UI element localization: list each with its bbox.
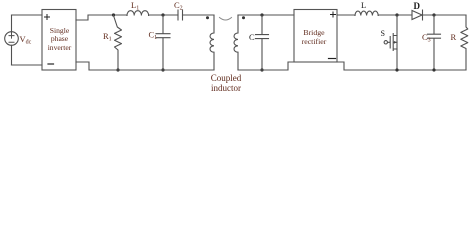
node C bottom bbox=[260, 68, 263, 71]
node switch bottom bbox=[395, 68, 398, 71]
coupled inductor primary bbox=[210, 15, 214, 70]
inductor L1 bbox=[127, 11, 149, 16]
svg-text:C: C bbox=[249, 32, 255, 42]
wire inverter top output with jog bbox=[76, 15, 127, 20]
wire bottom left from source to inverter bbox=[12, 64, 43, 66]
polarity dot left bbox=[206, 16, 209, 19]
voltage source Vdc bbox=[5, 15, 19, 65]
inductor L bbox=[355, 11, 378, 15]
svg-text:Singlephaseinverter: Singlephaseinverter bbox=[48, 26, 72, 52]
resistor R bbox=[461, 15, 468, 70]
resistor R1 bbox=[114, 16, 122, 71]
node C3 top bbox=[432, 13, 435, 16]
label - bridge bbox=[329, 58, 336, 60]
wire inverter bottom output with jog bbox=[76, 62, 214, 70]
wire L to diode bbox=[378, 14, 412, 16]
bridge rectifier block bbox=[294, 10, 337, 63]
node C3 bottom bbox=[432, 68, 435, 71]
node R1 top bbox=[112, 13, 115, 16]
svg-text:C1: C1 bbox=[149, 30, 158, 42]
svg-text:Coupledinductor: Coupledinductor bbox=[211, 73, 242, 93]
node R1 bottom bbox=[116, 68, 119, 71]
node C top bbox=[260, 13, 263, 16]
svg-text:D: D bbox=[414, 1, 421, 11]
svg-text:S: S bbox=[381, 29, 385, 38]
node C1 top bbox=[161, 13, 164, 16]
label + inverter bbox=[45, 15, 50, 20]
node switch top bbox=[395, 13, 398, 16]
diode D bbox=[412, 10, 423, 20]
capacitor C2 bbox=[178, 10, 183, 20]
svg-text:Vdc: Vdc bbox=[20, 34, 32, 46]
wire L1 to C2 bbox=[149, 14, 178, 16]
switch S mosfet bbox=[384, 15, 397, 70]
coupling arc bbox=[220, 18, 232, 21]
capacitor C bbox=[256, 15, 269, 70]
svg-text:C2: C2 bbox=[174, 0, 183, 12]
svg-text:L1: L1 bbox=[131, 0, 139, 12]
wire top left from source to inverter bbox=[12, 14, 43, 16]
capacitor C1 bbox=[156, 15, 170, 70]
wire bridge bottom output with jog bbox=[337, 62, 466, 70]
label - inverter bbox=[48, 63, 54, 65]
polarity dot right bbox=[242, 16, 245, 19]
wire diode to corner bbox=[423, 14, 467, 16]
wire C2 to coupled inductor bbox=[183, 14, 215, 16]
svg-text:R1: R1 bbox=[103, 31, 112, 43]
wire bridge top output to L bbox=[337, 14, 355, 16]
svg-text:Bridgerectifier: Bridgerectifier bbox=[302, 28, 327, 46]
wire secondary top to bridge bbox=[238, 14, 294, 16]
label + bridge bbox=[331, 12, 336, 17]
node C1 bottom bbox=[161, 68, 164, 71]
svg-text:R: R bbox=[451, 32, 457, 42]
capacitor C3 bbox=[428, 15, 441, 70]
inverter block bbox=[42, 10, 76, 71]
coupled inductor secondary bbox=[234, 15, 238, 70]
svg-text:L: L bbox=[361, 0, 366, 10]
wire secondary bottom to bridge with jog bbox=[238, 62, 294, 70]
